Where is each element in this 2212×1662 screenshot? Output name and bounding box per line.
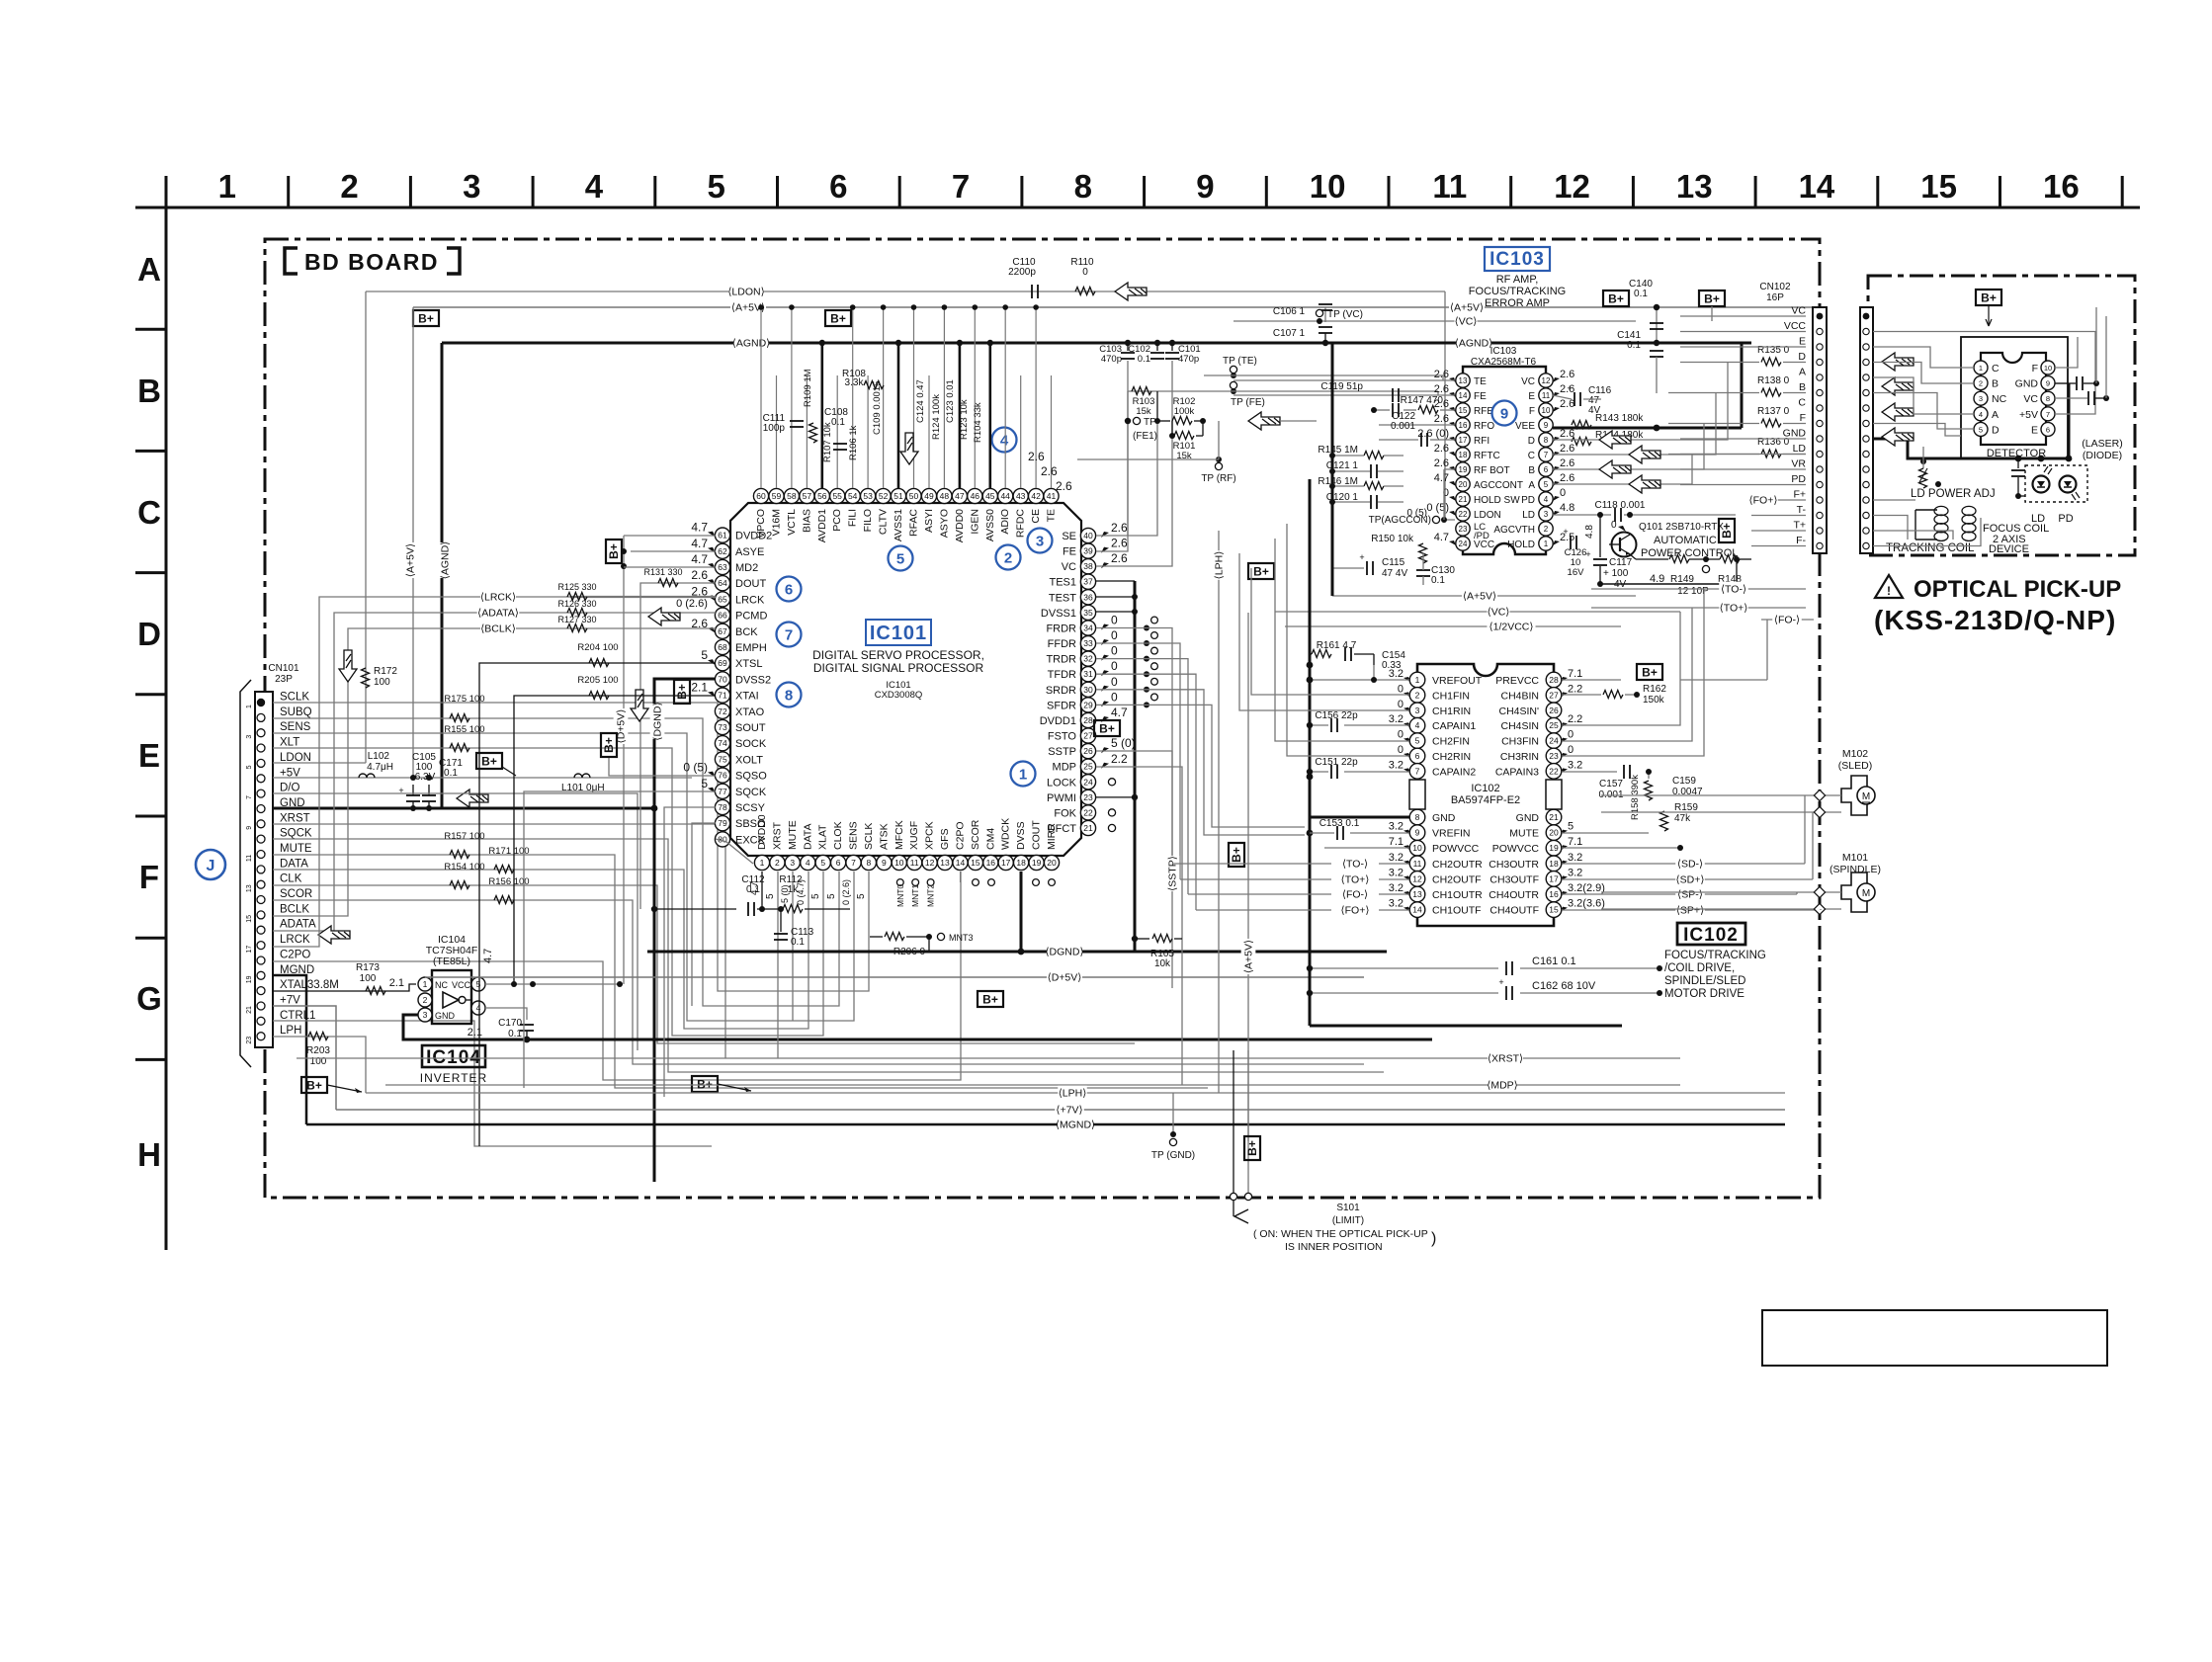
svg-text:LD POWER ADJ: LD POWER ADJ <box>1911 488 1996 500</box>
svg-text:⟨+7V⟩: ⟨+7V⟩ <box>1056 1105 1082 1117</box>
IC104 label box <box>422 1045 485 1067</box>
svg-text:3.2: 3.2 <box>1389 852 1404 864</box>
svg-text:⟨ADATA⟩: ⟨ADATA⟩ <box>477 608 519 620</box>
svg-text:2.6: 2.6 <box>1056 479 1072 493</box>
svg-text:(TE85L): (TE85L) <box>433 956 470 967</box>
wire pin1 VREFOUT <box>1310 679 1409 681</box>
wire LDON row <box>273 762 366 764</box>
svg-text:0 (2.6): 0 (2.6) <box>841 879 851 905</box>
svg-text:SCLK: SCLK <box>863 823 875 850</box>
svg-text:+: + <box>1567 383 1572 393</box>
svg-text:D: D <box>1992 424 1999 436</box>
B+ box IC103 right <box>1603 291 1629 306</box>
detector pin 5 D <box>1974 422 1988 436</box>
IC101 pin 11 XUGF <box>907 855 922 870</box>
svg-text:IC102: IC102 <box>1471 783 1499 794</box>
svg-text:C106 1: C106 1 <box>1273 306 1306 317</box>
IC101 pin 74 SOCK <box>715 736 729 751</box>
svg-text:CH2OUTF: CH2OUTF <box>1432 873 1482 885</box>
svg-text:B: B <box>1528 465 1535 476</box>
IC103 pin 23 LC/PD <box>1456 522 1470 536</box>
svg-text:5: 5 <box>820 858 825 868</box>
resistor R112 1k <box>783 905 803 913</box>
svg-text:CTRL1: CTRL1 <box>280 1010 315 1022</box>
IC101 pin 7 SENS <box>846 855 861 870</box>
IC104 inverter gate <box>443 992 459 1008</box>
detector pin 2 B <box>1974 376 1988 390</box>
IC101 pin 25 MDP <box>1080 759 1095 774</box>
svg-text:PCMD: PCMD <box>735 611 767 623</box>
svg-text:5: 5 <box>765 893 776 899</box>
svg-text:XTAL33.8M: XTAL33.8M <box>280 979 339 991</box>
wire pin10 POWVCC <box>1324 847 1409 849</box>
B+ box on +5V <box>476 753 502 769</box>
svg-text:SQSO: SQSO <box>735 771 767 783</box>
svg-text:FILI: FILI <box>847 509 859 527</box>
svg-text:R203: R203 <box>306 1045 330 1056</box>
svg-text:R158 390k: R158 390k <box>1630 775 1641 820</box>
svg-text:TE: TE <box>1046 509 1058 522</box>
B+ box IC102 right <box>1637 664 1662 680</box>
svg-text:⟨A+5V⟩: ⟨A+5V⟩ <box>1450 302 1484 314</box>
B+ box right of LPH <box>1248 563 1274 579</box>
svg-text:LDON: LDON <box>280 752 311 764</box>
IC104 pin5 wire <box>485 983 620 985</box>
svg-text:24: 24 <box>1083 777 1093 787</box>
svg-text:(FE1): (FE1) <box>1133 431 1157 442</box>
svg-text:SPINDLE/SLED: SPINDLE/SLED <box>1664 975 1745 987</box>
wire pin2 XRST down <box>777 872 779 1058</box>
svg-text:RFI: RFI <box>1474 436 1489 447</box>
wire EXCK pin80 <box>716 839 753 864</box>
svg-text:3: 3 <box>1415 706 1420 715</box>
svg-text:OPTICAL PICK-UP: OPTICAL PICK-UP <box>1914 576 2121 603</box>
CN101 pin 19 MGND <box>257 971 265 979</box>
svg-text:LOCK: LOCK <box>1047 777 1077 789</box>
svg-text:ADATA: ADATA <box>280 919 316 931</box>
svg-text:S101: S101 <box>1336 1203 1360 1213</box>
CN101 pin 13 CLK <box>257 880 265 888</box>
svg-text:4: 4 <box>585 168 604 205</box>
wire pin6 <box>1287 524 1409 756</box>
thick GND vertical IC102 <box>1309 479 1312 1026</box>
svg-text:4.7: 4.7 <box>691 521 708 535</box>
svg-text:PD: PD <box>1791 473 1806 485</box>
IC101 pin 2 XRST <box>770 855 785 870</box>
IC101 pin 23 PWMI <box>1080 789 1095 804</box>
svg-text:MNT0: MNT0 <box>895 884 905 907</box>
svg-text:SOCK: SOCK <box>735 738 767 750</box>
svg-text:MUTE: MUTE <box>1509 828 1539 840</box>
svg-text:B+: B+ <box>481 755 497 769</box>
svg-text:3: 3 <box>1544 510 1549 519</box>
svg-text:7: 7 <box>2046 410 2050 419</box>
B+ box mid bottom <box>692 1076 718 1092</box>
resistor R156 100 <box>494 896 514 904</box>
focus coil <box>1962 506 1976 515</box>
svg-text:B+: B+ <box>1720 523 1734 539</box>
svg-text:0: 0 <box>1111 675 1118 689</box>
CN102 pin T+ <box>1817 528 1823 534</box>
detector pin 8 VC <box>2041 391 2055 405</box>
svg-text:3.2(3.6): 3.2(3.6) <box>1568 898 1605 910</box>
IC103 pin 11 E <box>1539 388 1553 402</box>
svg-text:1: 1 <box>1979 364 1983 373</box>
B+ box on A+5V mid <box>825 310 851 326</box>
IC101 pin 39 FE <box>1080 543 1095 558</box>
svg-text:1k: 1k <box>788 884 800 895</box>
svg-text:16: 16 <box>1459 421 1468 430</box>
svg-text:12: 12 <box>925 858 935 868</box>
svg-text:9: 9 <box>1415 828 1420 838</box>
svg-text:8: 8 <box>867 858 872 868</box>
svg-text:XRST: XRST <box>771 821 783 850</box>
wire GND row thick <box>273 807 654 810</box>
svg-text:⟨LRCK⟩: ⟨LRCK⟩ <box>480 592 516 604</box>
IC101 pin 77 SQCK <box>715 784 729 798</box>
wire pin25 MDP <box>1096 767 1182 1085</box>
wire pin40 SE <box>1096 421 1157 536</box>
IC103 pin 8 D <box>1539 433 1553 447</box>
B+ box on A+5V left <box>413 310 439 326</box>
capacitor C102 0.1 <box>1154 340 1160 346</box>
IC101 pin 9 ATSK <box>877 855 892 870</box>
svg-text:C: C <box>1528 451 1535 461</box>
IC101 pin 55 PCO <box>830 488 845 503</box>
svg-text:76: 76 <box>718 771 727 781</box>
IC101 pin 34 FRDR <box>1080 621 1095 635</box>
svg-text:11: 11 <box>1413 859 1422 869</box>
IC102 pin 27 CH4BIN <box>1546 688 1562 704</box>
IC101 pin 30 SRDR <box>1080 682 1095 697</box>
svg-text:150k: 150k <box>1643 695 1665 706</box>
svg-text:39: 39 <box>1083 546 1093 556</box>
IC101 pin 36 TEST <box>1080 590 1095 605</box>
svg-text:( ON: WHEN THE OPTICAL PICK-UP: ( ON: WHEN THE OPTICAL PICK-UP <box>1253 1228 1428 1240</box>
svg-text:FOCUS/TRACKING: FOCUS/TRACKING <box>1469 286 1566 297</box>
svg-text:G: G <box>136 980 162 1017</box>
svg-text:PD: PD <box>1521 495 1535 506</box>
wire pin9 VREFIN <box>1350 832 1409 834</box>
svg-text:0 (2.6): 0 (2.6) <box>676 598 708 610</box>
svg-text:3.2: 3.2 <box>1568 867 1582 878</box>
svg-text:100: 100 <box>374 677 390 688</box>
pickup arrows <box>1882 353 1914 371</box>
D+5V rail <box>425 976 1364 978</box>
svg-text:15: 15 <box>246 915 253 923</box>
svg-text:26: 26 <box>1549 706 1559 715</box>
resistor R148 10 <box>1720 555 1740 563</box>
label FO- upper <box>1761 619 1814 621</box>
resistor R157 100 <box>450 851 469 859</box>
wire DVSS2 thick <box>654 679 716 1182</box>
svg-text:3.2: 3.2 <box>1389 821 1404 833</box>
CN102 pin C <box>1817 405 1823 411</box>
svg-text:3: 3 <box>246 735 253 739</box>
CN101 pin 21 +7V <box>257 1002 265 1010</box>
svg-text:RFE: RFE <box>1474 406 1493 417</box>
IC103 pin 19 RF BOT <box>1456 462 1470 476</box>
resistor R144 180k <box>1572 438 1591 446</box>
capacitor C162 68 10V <box>1310 992 1498 994</box>
svg-text:7: 7 <box>1415 766 1420 776</box>
IC101 pin 73 SOUT <box>715 719 729 734</box>
svg-text:(LASER): (LASER) <box>2082 438 2122 450</box>
svg-text:B+: B+ <box>1253 565 1269 579</box>
TP(RF) test point <box>1216 457 1222 462</box>
svg-text:0.1: 0.1 <box>1138 354 1150 365</box>
B+ box S101 <box>1244 1136 1260 1160</box>
svg-text:16: 16 <box>2043 168 2080 205</box>
svg-text:C170: C170 <box>498 1018 522 1029</box>
resistor R125 330 <box>567 593 587 601</box>
ruler left line <box>165 208 168 1250</box>
+7V rail <box>336 1109 1785 1111</box>
wire BCK line <box>571 627 716 629</box>
svg-text:AVSS1: AVSS1 <box>893 509 904 541</box>
svg-text:6.3V: 6.3V <box>415 772 436 783</box>
svg-text:27: 27 <box>1083 731 1093 741</box>
svg-text:3: 3 <box>1036 534 1044 550</box>
svg-text:CH1FIN: CH1FIN <box>1432 690 1470 702</box>
detector pin 6 E <box>2041 422 2055 436</box>
svg-text:NC: NC <box>1992 393 2007 405</box>
svg-text:18: 18 <box>1016 858 1026 868</box>
svg-text:13: 13 <box>1459 376 1468 385</box>
IC101 pin 37 TES1 <box>1080 574 1095 589</box>
IC101 pin 10 MFCK <box>892 855 906 870</box>
svg-text:2.1: 2.1 <box>389 977 404 989</box>
wire pin34 FRDR <box>1096 628 1172 865</box>
svg-text:4.7: 4.7 <box>482 949 494 963</box>
svg-text:CH3RIN: CH3RIN <box>1500 751 1539 763</box>
svg-text:53: 53 <box>863 491 873 501</box>
IC102 pin 17 CH3OUTF <box>1546 872 1562 887</box>
IC101 pin 29 SFDR <box>1080 698 1095 712</box>
IC101 pin 71 XTAI <box>715 688 729 703</box>
svg-text:CH4OUTR: CH4OUTR <box>1489 889 1539 901</box>
capacitor near laser <box>2017 458 2019 468</box>
IC103 pin 16 RFO <box>1456 418 1470 432</box>
svg-text:2.6: 2.6 <box>1434 383 1449 395</box>
svg-text:0: 0 <box>1111 614 1118 627</box>
svg-text:A: A <box>1528 480 1535 491</box>
detector chip body <box>1981 353 2046 445</box>
svg-text:AUTOMATIC: AUTOMATIC <box>1654 535 1717 546</box>
svg-text:9: 9 <box>246 826 253 830</box>
svg-text:C124 0.47: C124 0.47 <box>915 379 926 423</box>
arrow down at x352 <box>339 650 357 682</box>
IC101 pin 78 SCSY <box>715 799 729 814</box>
IC103 pin 5 A <box>1539 477 1553 491</box>
laser diode dashed box <box>2025 465 2087 502</box>
IC101 pin 59 V16M <box>769 488 784 503</box>
svg-text:B+: B+ <box>1981 291 1997 305</box>
capacitor C126 10 16V <box>1570 536 1572 549</box>
svg-text:DVDD2: DVDD2 <box>735 531 772 542</box>
IC102 pin 9 VREFIN <box>1409 825 1425 841</box>
IC102 pin 19 POWVCC <box>1546 840 1562 856</box>
wire pin32 TRDR <box>1096 659 1188 894</box>
wire pin23 PWMI <box>1096 796 1135 798</box>
IC102 pin 1 VREFOUT <box>1409 672 1425 688</box>
wire MUTE row <box>273 855 1208 1088</box>
IC101 pin 27 FSTO <box>1080 728 1095 743</box>
svg-text:RFAC: RFAC <box>908 509 920 537</box>
wire SQCK row <box>273 839 1384 1072</box>
svg-text:0.1: 0.1 <box>508 1029 522 1039</box>
test point MNT3 <box>937 933 944 940</box>
capacitor C110 2200p <box>1031 285 1033 298</box>
svg-text:⟨TO+⟩: ⟨TO+⟩ <box>1341 874 1370 886</box>
svg-text:HOLD: HOLD <box>1507 540 1535 550</box>
wire pin3 <box>1239 553 1409 710</box>
IC104 pin 2 <box>418 993 432 1007</box>
svg-text:B+: B+ <box>1608 292 1624 306</box>
CN102 pin B <box>1817 389 1823 395</box>
svg-text:0: 0 <box>1082 267 1088 278</box>
wire SQSO pin76 <box>609 757 716 776</box>
wire to pin 63 <box>624 566 716 568</box>
capacitor C170 0.1 <box>520 1024 534 1026</box>
IC101 label box <box>866 620 931 645</box>
capacitor C112 0.1 <box>654 908 736 910</box>
wire SENS <box>273 733 854 1021</box>
MGND rail <box>306 1123 1785 1126</box>
B+ box bottom left <box>301 1077 327 1093</box>
svg-text:22: 22 <box>1459 510 1468 519</box>
svg-text:SRDR: SRDR <box>1046 685 1076 697</box>
svg-text:7.1: 7.1 <box>1568 668 1582 680</box>
svg-text:45: 45 <box>985 491 995 501</box>
svg-text:+: + <box>1563 527 1568 537</box>
CN101 pin 15 BCLK <box>257 911 265 919</box>
wire TE line <box>1234 379 1455 381</box>
J node circle <box>196 850 225 879</box>
svg-text:0: 0 <box>1398 744 1404 756</box>
svg-text:⟨1/2VCC⟩: ⟨1/2VCC⟩ <box>1489 622 1534 633</box>
arrows left of CN102 <box>1599 431 1631 449</box>
svg-text:C162 68 10V: C162 68 10V <box>1532 980 1596 992</box>
wire pin1 DVDD0 down <box>761 872 763 909</box>
svg-text:2: 2 <box>1004 550 1012 567</box>
IC101 pin 19 COUT <box>1029 855 1044 870</box>
svg-text:78: 78 <box>718 802 727 812</box>
wire CTRL1 row <box>273 1021 712 1146</box>
svg-text:10: 10 <box>1412 843 1422 853</box>
svg-text:F+: F+ <box>1793 489 1806 501</box>
svg-text:B+: B+ <box>607 543 621 559</box>
IC102 body <box>1417 664 1554 926</box>
TP(GND) test point <box>1172 1093 1174 1134</box>
resistor R131 330 <box>658 579 678 587</box>
wire SCOR row <box>273 900 1364 1064</box>
svg-text:POWVCC: POWVCC <box>1432 843 1480 855</box>
svg-text:LDON: LDON <box>1474 510 1501 521</box>
svg-text:0: 0 <box>1568 744 1574 756</box>
MNT test points <box>896 879 903 886</box>
svg-text:R147 470: R147 470 <box>1401 395 1444 406</box>
resistor R105 10k <box>1135 938 1149 940</box>
B+ box vertical pin76 <box>601 733 617 757</box>
laser diode LD <box>2033 476 2050 493</box>
svg-text:62: 62 <box>718 546 727 556</box>
svg-text:C123 0.01: C123 0.01 <box>945 379 956 423</box>
svg-text:5: 5 <box>1415 736 1420 746</box>
BD BOARD title <box>285 248 460 274</box>
svg-text:LD: LD <box>1522 510 1535 521</box>
svg-text:100: 100 <box>360 973 377 984</box>
detector pin 4 A <box>1974 407 1988 421</box>
TP(VC) test point <box>1316 309 1322 316</box>
IC102 pin 20 MUTE <box>1546 825 1562 841</box>
IC101 pin 56 AVDD1 <box>814 488 829 503</box>
wire pin12 TO+ <box>1379 878 1409 880</box>
IC103 pin 20 AGCCONT <box>1456 477 1470 491</box>
svg-text:12: 12 <box>1412 873 1422 883</box>
test point circle APC <box>1702 565 1709 572</box>
svg-text:3.2: 3.2 <box>1389 759 1404 771</box>
svg-text:CAPAIN3: CAPAIN3 <box>1495 766 1539 778</box>
svg-text:0.1: 0.1 <box>1627 340 1641 351</box>
svg-text:⟨VC⟩: ⟨VC⟩ <box>1455 316 1478 328</box>
svg-text:3.2: 3.2 <box>1568 759 1582 771</box>
svg-text:FE: FE <box>1063 546 1076 558</box>
svg-text:15k: 15k <box>1136 406 1151 417</box>
B+ box pickup <box>1976 290 2001 305</box>
svg-text:72: 72 <box>718 706 727 716</box>
svg-text:M102: M102 <box>1842 748 1868 760</box>
svg-text:75: 75 <box>718 754 727 764</box>
IC101 pin 51 AVSS1 <box>891 488 905 503</box>
wire pin19 POWVCC <box>1562 847 1680 849</box>
svg-text:LRCK: LRCK <box>280 934 310 946</box>
svg-text:CLK: CLK <box>280 873 302 885</box>
svg-text:CH2FIN: CH2FIN <box>1432 736 1470 748</box>
IC101 pin 4 DATA <box>801 855 815 870</box>
resistor R158 390k <box>1645 781 1653 800</box>
thick GND path detector <box>2055 382 2069 384</box>
labels TO- TO+ right <box>1591 588 1806 590</box>
wire A+5V rail <box>413 306 1821 308</box>
svg-text:⟨A+5V⟩: ⟨A+5V⟩ <box>1243 940 1255 973</box>
svg-text:2.6: 2.6 <box>1434 369 1449 380</box>
svg-text:M: M <box>1862 791 1870 802</box>
circled note 5 <box>889 546 913 571</box>
wire pin11 TO- <box>1379 863 1409 865</box>
wire pin20 MUTE <box>1562 832 1649 834</box>
svg-text:37: 37 <box>1083 577 1093 587</box>
svg-text:DVSS: DVSS <box>1015 821 1027 850</box>
CN102 pin VC <box>1817 313 1824 320</box>
svg-text:0: 0 <box>1568 729 1574 741</box>
svg-text:61: 61 <box>718 531 727 540</box>
IC101 pin 28 DVDD1 <box>1080 712 1095 727</box>
svg-text:66: 66 <box>718 611 727 621</box>
wire pin8 GND thick <box>1310 816 1409 819</box>
svg-text:0: 0 <box>1560 487 1566 499</box>
IC104 pin 3 <box>418 1008 432 1022</box>
IC104 pin4 wire to C170 <box>485 1008 527 1020</box>
svg-text:2.6: 2.6 <box>1560 472 1574 484</box>
wire D/O row <box>273 793 638 1050</box>
wire XTAL33.8M row <box>273 984 416 991</box>
svg-text:2.6: 2.6 <box>1560 398 1574 410</box>
capacitor C113 0.1 <box>780 909 782 932</box>
svg-text:5: 5 <box>1544 480 1549 489</box>
B+ box near pin28 <box>1094 720 1120 736</box>
IC101 pin 60 VPCO <box>753 488 768 503</box>
